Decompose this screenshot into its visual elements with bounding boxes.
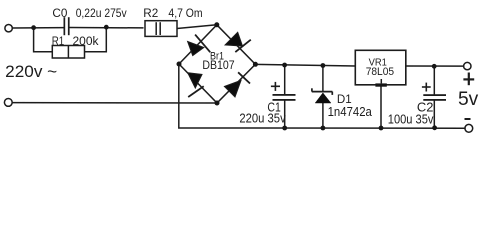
svg-text:R2: R2 xyxy=(143,6,158,20)
svg-text:R1: R1 xyxy=(52,36,64,48)
svg-text:78L05: 78L05 xyxy=(366,66,394,78)
svg-text:4,7 Om: 4,7 Om xyxy=(168,6,202,20)
svg-text:DB107: DB107 xyxy=(202,58,234,72)
svg-text:0,22u 275v: 0,22u 275v xyxy=(76,6,127,20)
svg-text:1n4742a: 1n4742a xyxy=(328,104,373,119)
svg-text:220u 35v: 220u 35v xyxy=(239,111,286,125)
svg-text:C0: C0 xyxy=(52,6,67,20)
svg-text:200k: 200k xyxy=(73,34,100,48)
svg-text:100u 35v: 100u 35v xyxy=(388,113,434,127)
svg-text:5v: 5v xyxy=(458,88,479,110)
svg-text:220v ~: 220v ~ xyxy=(5,63,57,81)
